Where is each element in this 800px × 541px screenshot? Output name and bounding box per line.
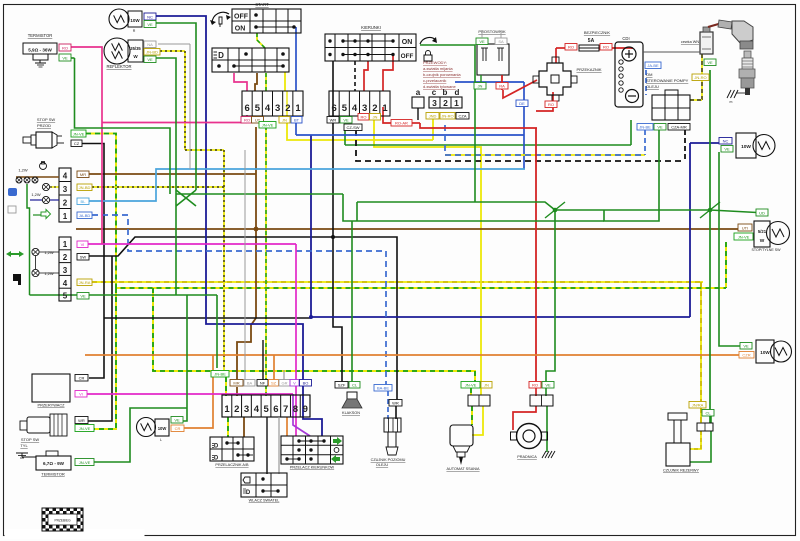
svg-text:4: 4 [265, 103, 271, 114]
svg-text:V: V [293, 381, 296, 386]
svg-text:3: 3 [244, 404, 249, 415]
svg-text:JN-RA: JN-RA [79, 280, 91, 285]
svg-text:4: 4 [254, 404, 260, 415]
svg-text:10W: 10W [741, 144, 751, 150]
svg-text:CZR: CZR [742, 353, 750, 358]
svg-text:2: 2 [63, 253, 68, 262]
svg-text:5: 5 [63, 292, 68, 301]
svg-text:SA: SA [498, 39, 504, 44]
svg-text:3: 3 [63, 185, 68, 194]
svg-text:VI: VI [81, 242, 85, 247]
svg-text:CZ-SW: CZ-SW [346, 125, 359, 130]
svg-text:m: m [730, 100, 733, 104]
svg-text:JN: JN [478, 84, 483, 89]
svg-text:VI: VI [79, 392, 83, 397]
svg-text:PRZEKAZNIK: PRZEKAZNIK [576, 67, 601, 72]
svg-text:CL: CL [352, 383, 358, 388]
svg-text:5: 5 [342, 103, 348, 114]
svg-text:8: 8 [293, 404, 298, 415]
svg-text:W: W [760, 238, 765, 244]
svg-text:SW: SW [80, 255, 87, 260]
svg-text:VE: VE [343, 118, 349, 123]
svg-text:PROSTOWNIK: PROSTOWNIK [478, 29, 506, 34]
svg-text:BA: BA [247, 381, 253, 386]
svg-text:WLACZ SWIATEL: WLACZ SWIATEL [249, 499, 280, 503]
svg-text:REFLEKTOR: REFLEKTOR [106, 64, 131, 69]
svg-text:35/35: 35/35 [130, 46, 141, 51]
svg-text:MR: MR [80, 172, 86, 177]
svg-text:1,2W: 1,2W [44, 250, 54, 255]
svg-text:OM: OM [646, 72, 652, 77]
svg-text:BA-BE: BA-BE [377, 386, 389, 391]
svg-text:VE: VE [743, 344, 749, 349]
svg-text:c-przelacznik: c-przelacznik [423, 78, 446, 83]
svg-text:OFF: OFF [234, 14, 249, 21]
svg-text:NA: NA [147, 42, 153, 47]
svg-text:DE: DE [519, 101, 525, 106]
svg-text:d: d [455, 88, 460, 97]
svg-text:CZA: CZA [459, 114, 467, 119]
svg-text:3: 3 [432, 98, 437, 108]
svg-text:VE: VE [479, 39, 485, 44]
svg-text:4: 4 [63, 279, 68, 288]
svg-text:cewka WN: cewka WN [681, 40, 699, 44]
svg-text:STEROWANIE POMPY: STEROWANIE POMPY [646, 78, 689, 83]
svg-text:KIERUNKI: KIERUNKI [361, 25, 381, 30]
svg-text:10W: 10W [158, 426, 167, 431]
svg-text:5: 5 [255, 103, 261, 114]
svg-text:JN-RO: JN-RO [441, 114, 453, 119]
svg-text:a: a [416, 88, 421, 97]
svg-text:2: 2 [372, 103, 377, 114]
svg-text:7: 7 [283, 404, 288, 415]
svg-text:PRZEBIEG: PRZEBIEG [54, 519, 71, 523]
svg-text:RO: RO [603, 45, 609, 50]
svg-text:OFF: OFF [401, 53, 414, 60]
svg-text:5,9Ω - 36W: 5,9Ω - 36W [28, 48, 52, 53]
svg-text:JN-RO: JN-RO [694, 75, 706, 80]
svg-text:WR: WR [78, 418, 85, 423]
svg-text:PRZOD: PRZOD [37, 123, 51, 128]
svg-text:4: 4 [63, 172, 68, 181]
svg-text:VE: VE [657, 125, 663, 130]
svg-text:c: c [432, 88, 437, 97]
svg-text:D: D [218, 51, 224, 60]
svg-text:BT: BT [294, 118, 300, 123]
svg-text:JN-VE: JN-VE [79, 460, 91, 465]
svg-text:JN-BE: JN-BE [639, 125, 651, 130]
svg-text:NC: NC [723, 139, 729, 144]
svg-text:2: 2 [285, 103, 290, 114]
svg-text:RO: RO [568, 45, 574, 50]
svg-text:JN-VE: JN-VE [73, 132, 85, 137]
svg-text:D: D [246, 490, 251, 496]
svg-text:NC: NC [147, 15, 153, 20]
svg-text:VE: VE [724, 147, 730, 152]
svg-text:UTI: UTI [742, 226, 748, 231]
svg-text:BO: BO [303, 381, 309, 386]
svg-text:JN: JN [373, 115, 378, 120]
svg-text:JN-VE: JN-VE [738, 235, 750, 240]
svg-text:JN-BD: JN-BD [79, 185, 91, 190]
svg-text:VE: VE [62, 56, 68, 61]
svg-text:TYL: TYL [20, 443, 28, 448]
svg-text:STOP SW: STOP SW [37, 117, 56, 122]
svg-text:6,7Ω - 9W: 6,7Ω - 9W [43, 461, 65, 466]
svg-text:RO: RO [548, 102, 554, 107]
svg-text:PRZEWODY:: PRZEWODY: [423, 60, 447, 65]
svg-text:2: 2 [234, 404, 239, 415]
svg-text:OLEJU: OLEJU [646, 84, 659, 89]
svg-text:MR: MR [233, 381, 239, 386]
svg-text:10W: 10W [760, 350, 770, 355]
svg-text:RO: RO [62, 46, 68, 51]
svg-text:1,2W: 1,2W [18, 168, 28, 173]
svg-text:JN-VE: JN-VE [262, 123, 274, 128]
svg-text:1,2W: 1,2W [44, 271, 54, 276]
svg-text:d-swiatla tylowane: d-swiatla tylowane [423, 84, 456, 89]
svg-text:PRZELACZNIK A/B: PRZELACZNIK A/B [215, 463, 249, 467]
svg-text:JN: JN [484, 383, 489, 388]
svg-text:JA-BE: JA-BE [647, 63, 659, 68]
svg-text:PRZERYWACZ: PRZERYWACZ [37, 403, 65, 408]
svg-text:R: R [133, 29, 136, 33]
svg-text:STOP/TYLNE SW: STOP/TYLNE SW [751, 248, 781, 252]
svg-text:PRADNICA: PRADNICA [517, 455, 537, 459]
svg-text:CR: CR [175, 426, 181, 431]
svg-text:GR: GR [282, 381, 288, 386]
svg-text:CZA-MR: CZA-MR [671, 125, 687, 130]
svg-text:3: 3 [362, 103, 367, 114]
svg-text:5/21: 5/21 [758, 229, 767, 234]
svg-text:STOP SW: STOP SW [21, 437, 40, 442]
svg-text:JN-BD: JN-BD [146, 50, 158, 55]
svg-text:VE: VE [80, 294, 86, 299]
svg-text:VE: VE [147, 57, 153, 62]
svg-text:BEZPIECZNIK: BEZPIECZNIK [584, 30, 611, 35]
svg-text:W: W [133, 54, 138, 59]
svg-text:AUTOMAT SSANIA: AUTOMAT SSANIA [446, 467, 480, 471]
svg-text:10W: 10W [130, 18, 140, 23]
svg-text:ON: ON [235, 26, 246, 33]
svg-text:JND: JND [429, 114, 437, 119]
svg-text:a-swiatla mijania: a-swiatla mijania [423, 66, 453, 71]
svg-text:SZ: SZ [271, 381, 277, 386]
svg-text:RO: RO [361, 115, 367, 120]
svg-text:1: 1 [295, 103, 301, 114]
svg-text:1: 1 [224, 404, 230, 415]
svg-text:VE: VE [707, 60, 713, 65]
svg-text:5: 5 [263, 404, 269, 415]
svg-text:VE: VE [174, 418, 180, 423]
svg-text:VE: VE [147, 22, 153, 27]
svg-text:3: 3 [63, 266, 68, 275]
svg-text:D: D [214, 444, 219, 450]
svg-text:JA-BD: JA-BD [79, 213, 91, 218]
svg-text:b-czujnik porownania: b-czujnik porownania [423, 72, 461, 77]
svg-text:9: 9 [303, 404, 308, 415]
svg-text:JN-BE: JN-BE [214, 372, 226, 377]
svg-text:2: 2 [443, 98, 448, 108]
svg-text:VE: VE [545, 383, 551, 388]
svg-text:CZUJNIK REZERWY: CZUJNIK REZERWY [663, 469, 699, 473]
svg-text:RO: RO [244, 118, 250, 123]
svg-text:TERMISTOR: TERMISTOR [28, 33, 53, 38]
svg-text:5A: 5A [588, 38, 595, 44]
svg-text:RA: RA [499, 84, 505, 89]
svg-text:4: 4 [352, 103, 358, 114]
svg-text:WR: WR [392, 401, 399, 406]
svg-text:START: START [255, 2, 269, 7]
svg-text:1: 1 [382, 103, 388, 114]
svg-text:CL: CL [705, 411, 711, 416]
svg-text:6: 6 [245, 103, 250, 114]
svg-text:PRZELACZ KIERUNKOW: PRZELACZ KIERUNKOW [290, 466, 335, 470]
svg-text:JN: JN [282, 118, 287, 123]
svg-text:1,2W: 1,2W [31, 192, 41, 197]
svg-text:JN/RA: JN/RA [692, 403, 704, 408]
svg-text:b: b [443, 88, 448, 97]
svg-text:RO-AR: RO-AR [395, 121, 408, 126]
svg-text:L: L [160, 438, 162, 442]
svg-text:CDI: CDI [622, 36, 629, 41]
svg-text:1: 1 [454, 98, 459, 108]
svg-text:CZUJNIK POZIOMU: CZUJNIK POZIOMU [371, 458, 406, 462]
svg-text:KLAKSON: KLAKSON [342, 411, 360, 415]
svg-text:CZ: CZ [74, 141, 80, 146]
svg-text:SZF: SZF [338, 383, 346, 388]
svg-text:UD: UD [759, 211, 765, 216]
svg-text:6: 6 [332, 103, 337, 114]
svg-text:TERMISTOR: TERMISTOR [41, 472, 65, 477]
svg-text:ON: ON [402, 39, 413, 46]
svg-text:BL: BL [81, 199, 87, 204]
svg-text:6: 6 [273, 404, 278, 415]
svg-text:RO: RO [532, 383, 538, 388]
svg-text:WR: WR [330, 118, 337, 123]
svg-text:D: D [214, 456, 219, 462]
svg-text:OLEJU: OLEJU [376, 463, 388, 467]
svg-text:JN-VE: JN-VE [79, 426, 91, 431]
svg-text:1: 1 [63, 240, 68, 249]
svg-text:CR: CR [79, 376, 85, 381]
svg-text:JN-VE: JN-VE [465, 383, 477, 388]
svg-text:NF: NF [260, 381, 266, 386]
svg-text:2: 2 [63, 199, 68, 208]
svg-text:3: 3 [275, 103, 280, 114]
svg-text:1: 1 [63, 212, 68, 221]
